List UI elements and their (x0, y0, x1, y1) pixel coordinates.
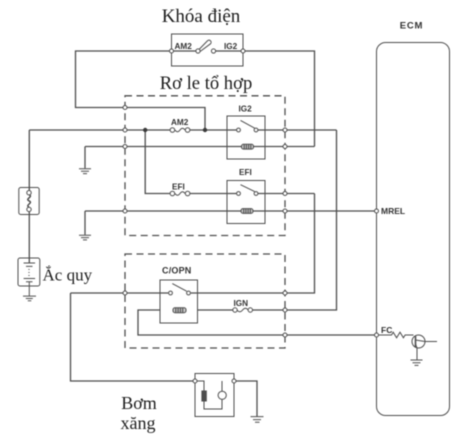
svg-text:AM2: AM2 (171, 118, 189, 127)
svg-text:IG2: IG2 (239, 105, 253, 114)
svg-text:Rơ le tổ hợp: Rơ le tổ hợp (160, 73, 253, 94)
svg-text:IGN: IGN (234, 299, 249, 308)
svg-text:Bơm: Bơm (121, 393, 157, 413)
svg-text:MREL: MREL (381, 206, 405, 216)
svg-text:C/OPN: C/OPN (162, 266, 192, 276)
svg-text:xăng: xăng (121, 413, 156, 433)
svg-text:ECM: ECM (400, 21, 424, 32)
svg-text:Ắc quy: Ắc quy (43, 266, 93, 285)
svg-text:EFI: EFI (239, 168, 252, 177)
svg-text:Khóa điện: Khóa điện (162, 6, 241, 27)
svg-text:AM2: AM2 (175, 42, 193, 51)
svg-text:FC: FC (381, 325, 392, 335)
svg-text:EFI: EFI (172, 183, 185, 192)
svg-text:IG2: IG2 (224, 42, 238, 51)
